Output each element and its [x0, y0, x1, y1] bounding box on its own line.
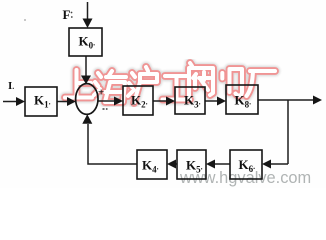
- block K4: [137, 150, 167, 179]
- wire: left input into K1: [3, 101, 17, 103]
- wire: K0 down to summing junction: [85, 56, 87, 77]
- wire: K3 to K8: [205, 100, 218, 102]
- block K1: [25, 87, 57, 116]
- wire: K5 to K4: [175, 163, 177, 165]
- F colon specks: [71, 12, 73, 14]
- svg-text:+: +: [98, 87, 104, 99]
- arrowhead into summing junction left: [67, 97, 76, 106]
- svg-text:F: F: [63, 7, 71, 22]
- wire: K8 output to right arrow: [258, 99, 313, 101]
- arrowhead into K8: [217, 97, 226, 106]
- svg-text:I.: I.: [8, 80, 14, 92]
- wire: junction down: [287, 100, 289, 164]
- arrowhead into K6: [262, 160, 271, 169]
- wire: down to K6: [270, 163, 288, 165]
- wire: top input F into K0: [87, 2, 89, 20]
- block K6: [230, 150, 262, 179]
- arrowhead into K5: [206, 160, 215, 169]
- speck top-left: [24, 19, 26, 21]
- arrowhead into summing junction bottom: [82, 114, 92, 124]
- wire: K2 to K3: [153, 100, 167, 102]
- wire: summing junction to K2: [98, 100, 115, 102]
- block K5: [177, 150, 206, 179]
- block K0: [69, 28, 102, 56]
- arrowhead into K2: [114, 97, 123, 106]
- wire: K6 to K5: [214, 163, 230, 165]
- sign - at summing junction: [103, 108, 108, 110]
- wire: K4 back under summing junction and up: [88, 124, 137, 164]
- block K8: [226, 85, 258, 114]
- arrowhead into summing junction top: [81, 76, 91, 85]
- arrowhead input into K1: [16, 97, 25, 106]
- summing junction circle: [76, 84, 98, 115]
- arrowhead into K3: [166, 97, 175, 106]
- block K2: [123, 86, 153, 115]
- wire: K1 to summing junction: [57, 101, 67, 103]
- arrowhead output right: [313, 96, 322, 105]
- arrowhead into K0: [83, 19, 93, 29]
- arrowhead into K4: [167, 160, 176, 169]
- block K3: [175, 87, 205, 114]
